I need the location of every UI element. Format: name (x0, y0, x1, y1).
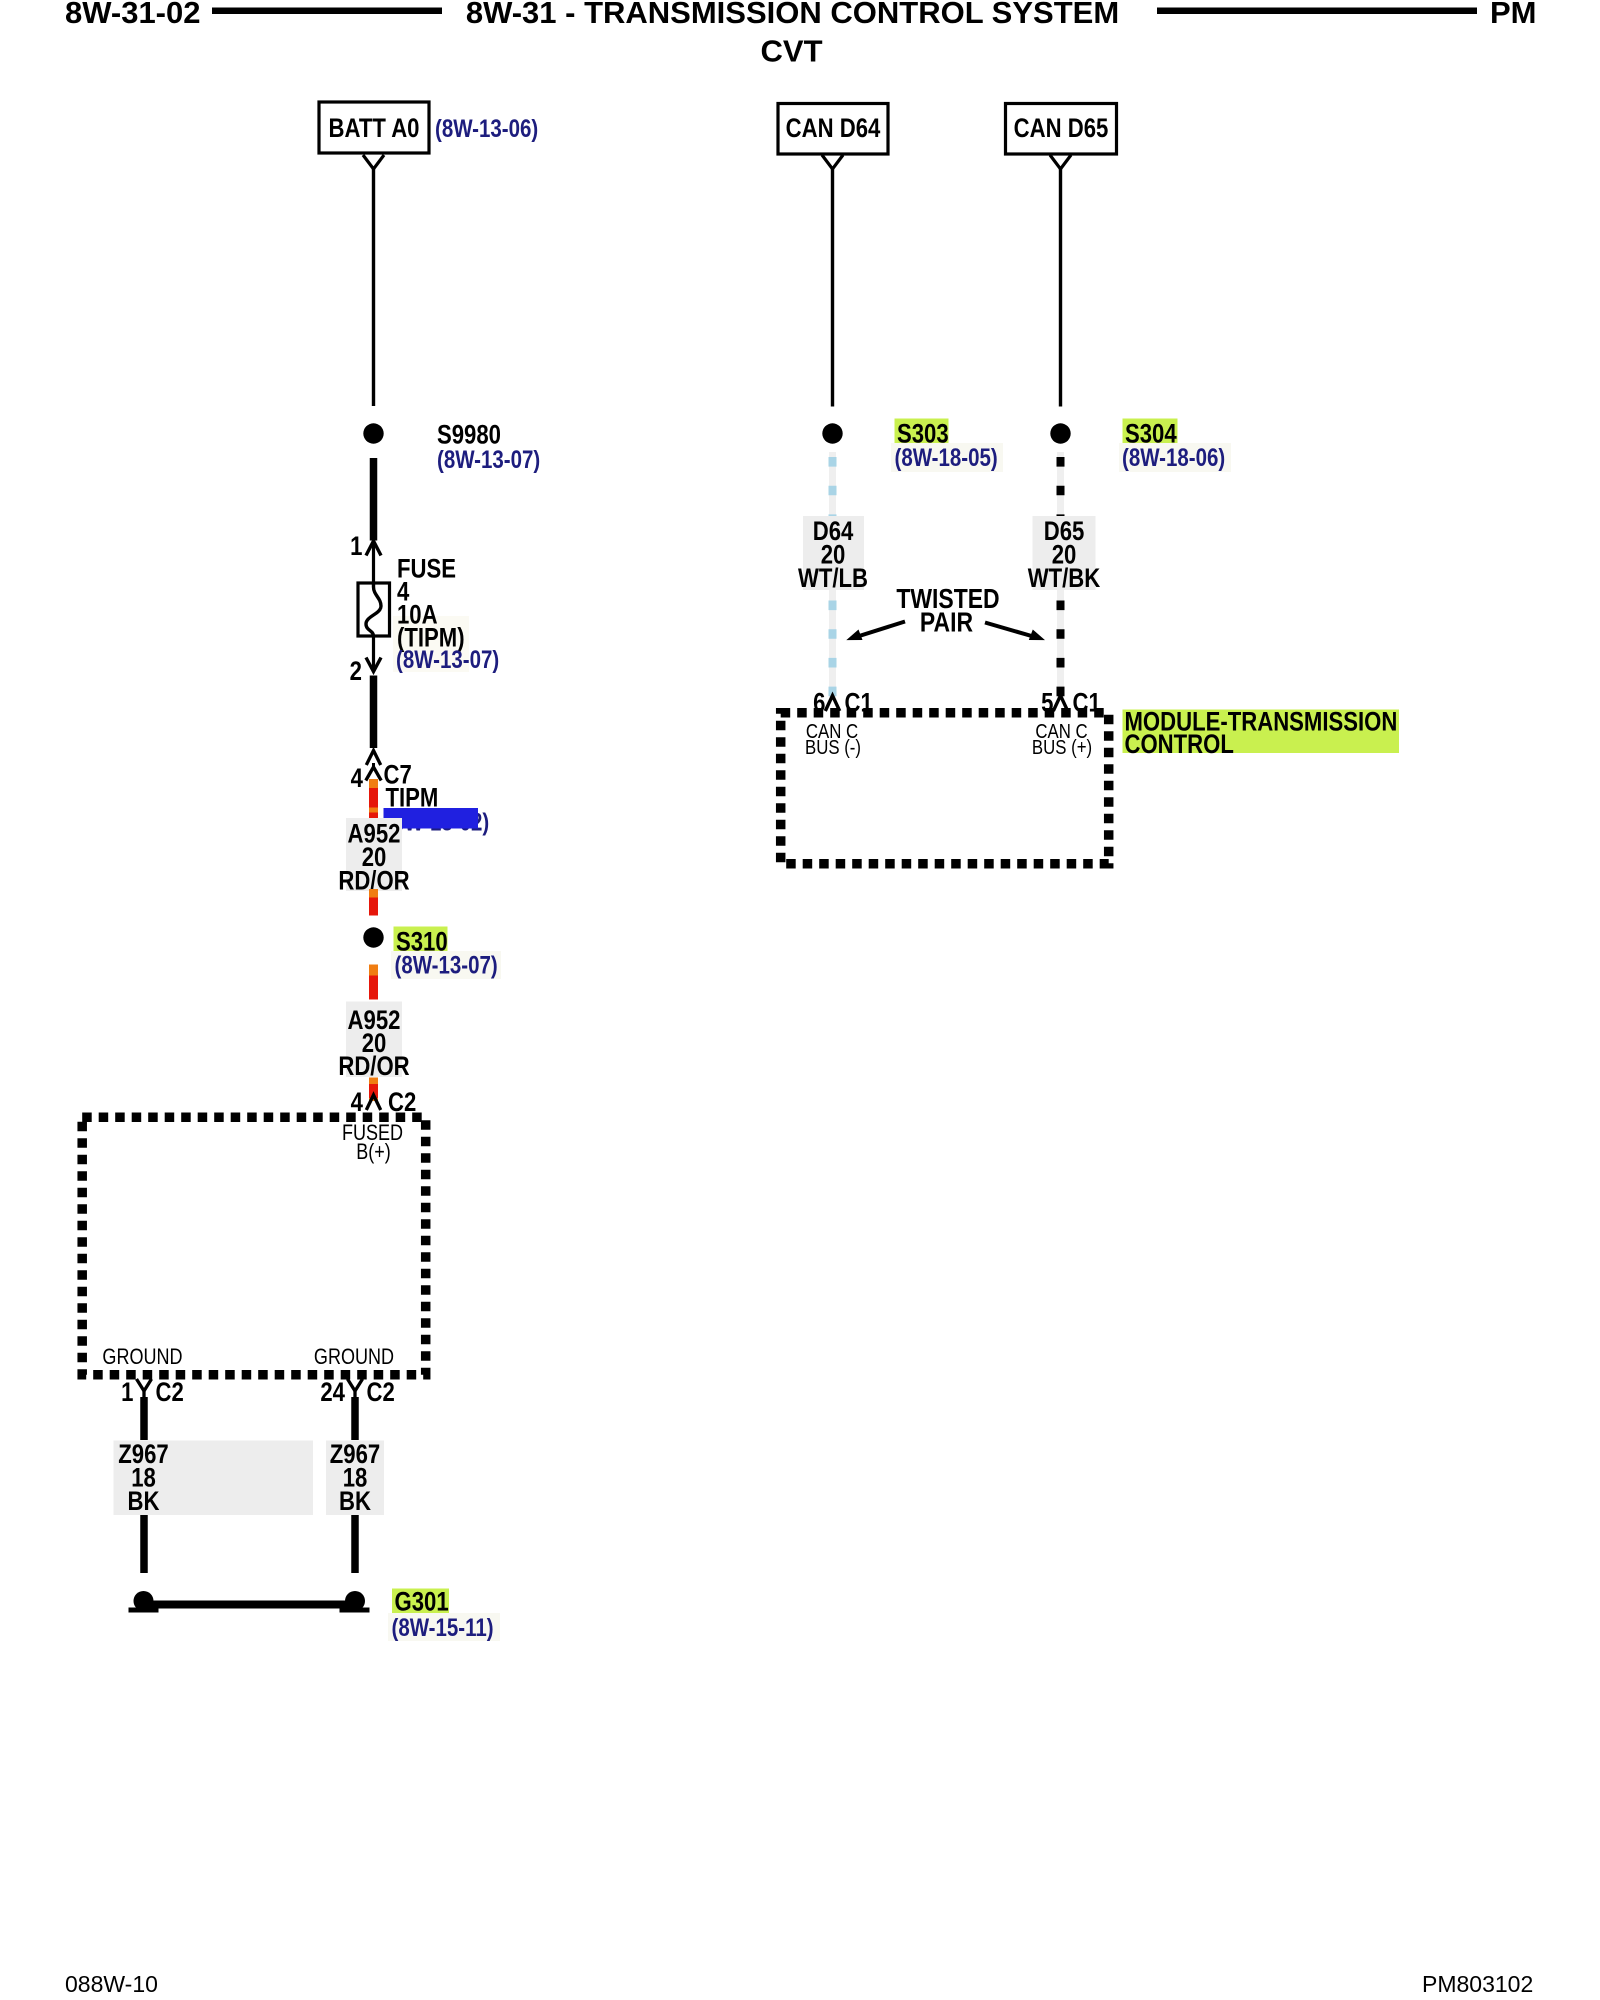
connector C2 label left (156, 1378, 184, 1408)
svg-text:CVT: CVT (761, 34, 823, 69)
svg-text:C2: C2 (156, 1378, 184, 1408)
wire label A952 20 RD/OR second (338, 1002, 409, 1082)
twisted pair arrow right (985, 623, 1045, 641)
svg-text:24: 24 (320, 1378, 345, 1408)
node BATT A0 (319, 102, 429, 153)
svg-text:C2: C2 (367, 1378, 395, 1408)
pin 2 arrow (366, 636, 381, 672)
svg-text:8W-31 - TRANSMISSION CONTROL S: 8W-31 - TRANSMISSION CONTROL SYSTEM (466, 0, 1119, 30)
pin 5 label (1041, 689, 1054, 719)
ground G301 label (392, 1588, 449, 1618)
svg-text:2: 2 (350, 657, 362, 687)
svg-text:WT/BK: WT/BK (1028, 564, 1101, 594)
connector C7 label (384, 761, 412, 791)
footer right code (1422, 1971, 1533, 1997)
pin 4 label at C2 (351, 1088, 364, 1118)
header left rule (212, 8, 442, 15)
pin 1 arrow (366, 541, 381, 583)
svg-text:1: 1 (121, 1378, 134, 1408)
svg-text:BUS (+): BUS (+) (1032, 735, 1092, 758)
wire S9980 to fuse pin 1 (370, 458, 378, 541)
header title (466, 0, 1119, 69)
wire Z967 right upper (351, 1397, 359, 1440)
wire label D64 20 WT/LB (798, 516, 868, 594)
svg-text:8W-31-02: 8W-31-02 (65, 0, 201, 30)
pin function CAN C BUS (+) (1032, 719, 1092, 758)
svg-text:BATT A0: BATT A0 (329, 114, 420, 144)
connector C7 arrows (366, 751, 381, 781)
reference (8W-13-06) (435, 114, 538, 142)
svg-text:(8W-13-07): (8W-13-07) (396, 645, 499, 673)
svg-text:PAIR: PAIR (920, 607, 973, 638)
svg-text:GROUND: GROUND (102, 1345, 182, 1369)
svg-text:CAN D64: CAN D64 (786, 114, 881, 144)
wire Z967 left lower (140, 1515, 148, 1573)
wire CAN D64 to S303 (831, 169, 834, 407)
svg-text:4: 4 (351, 764, 364, 794)
pin 6 label (813, 689, 825, 719)
fuse label FUSE 4 10A (TIPM) (393, 554, 469, 672)
pin function GROUND left (102, 1345, 182, 1369)
wire label Z967 18 BK left (114, 1440, 314, 1517)
module transmission control dashed box (781, 713, 1109, 864)
svg-text:BUS (-): BUS (-) (805, 735, 861, 758)
svg-text:(8W-13-07): (8W-13-07) (437, 445, 540, 473)
reference (8W-13-07) (391, 951, 501, 979)
wire Z967 right lower (351, 1515, 359, 1573)
node CAN D64 (778, 104, 888, 155)
svg-text:088W-10: 088W-10 (65, 1971, 158, 1997)
svg-text:B(+): B(+) (356, 1140, 391, 1164)
reference (8W-18-06) (1119, 443, 1231, 472)
reference (8W-13-07) (437, 445, 540, 473)
wire label A952 20 RD/OR (338, 818, 409, 896)
connector C2 caret (366, 1095, 380, 1110)
label TWISTED PAIR (896, 584, 999, 638)
pin 1 label C2 (121, 1378, 134, 1408)
reference (8W-15-11) (388, 1613, 500, 1641)
svg-text:PM803102: PM803102 (1422, 1971, 1533, 1997)
wire D64 dotted (WT/LB) (829, 452, 836, 697)
pin function CAN C BUS (-) (805, 719, 861, 758)
reference (8W-13-07) (396, 645, 499, 673)
ground G301 symbol (129, 1591, 370, 1613)
connector Y right (348, 1379, 363, 1400)
reference (8W-18-05) (891, 443, 1003, 472)
connector V below CAN D65 (1050, 155, 1071, 169)
splice S9980 (363, 421, 501, 451)
connector Y left (137, 1379, 152, 1400)
svg-text:(8W-13-07): (8W-13-07) (395, 951, 498, 979)
header right rule (1157, 8, 1477, 15)
connector V below CAN D64 (822, 155, 843, 169)
pin 5 caret (1053, 696, 1067, 712)
svg-text:WT/LB: WT/LB (798, 564, 868, 594)
pin function FUSED B(+) (342, 1121, 403, 1164)
pin 2 label (350, 657, 362, 687)
pin 1 label (350, 532, 363, 562)
splice S304 (1050, 419, 1177, 450)
svg-text:CONTROL: CONTROL (1125, 730, 1234, 760)
wire fuse to connector C7 (370, 676, 378, 749)
svg-text:PM: PM (1490, 0, 1537, 30)
fuse F4 10A TIPM (358, 583, 390, 636)
splice S303 (822, 419, 948, 450)
svg-text:(8W-15-11): (8W-15-11) (392, 1613, 494, 1641)
wire label D65 20 WT/BK (1028, 516, 1101, 594)
wire A952 segment 1 (RD/OR) (369, 779, 378, 818)
hidden reference (8W-13-02) under highlight (386, 808, 489, 836)
wire label Z967 18 BK right (326, 1440, 384, 1517)
module TIPM dashed box (lower left) (82, 1117, 426, 1375)
splice S310 (363, 927, 447, 958)
header right code PM (1490, 0, 1537, 30)
pin 4 label (351, 764, 364, 794)
module name MODULE-TRANSMISSION CONTROL (1123, 708, 1400, 760)
connector C2 label right (367, 1378, 395, 1408)
wire BATT A0 to S9980 (372, 169, 375, 406)
TIPM label (386, 784, 439, 814)
wire A952 segment 4 (RD/OR) (369, 1078, 378, 1102)
wire Z967 left upper (140, 1397, 148, 1440)
svg-text:RD/OR: RD/OR (338, 1052, 409, 1082)
wire A952 segment 3 (RD/OR) (369, 965, 378, 1000)
header left page number (65, 0, 201, 30)
svg-text:GROUND: GROUND (314, 1345, 394, 1369)
svg-text:(8W-18-06): (8W-18-06) (1122, 443, 1225, 471)
pin 24 label C2 (320, 1378, 345, 1408)
svg-text:1: 1 (350, 532, 363, 562)
svg-text:CAN D65: CAN D65 (1014, 114, 1109, 144)
connector C2 label (388, 1088, 416, 1118)
pin 6 caret (825, 696, 839, 712)
footer left code (65, 1971, 158, 1997)
node CAN D65 (1006, 104, 1117, 155)
svg-text:BK: BK (339, 1487, 371, 1517)
svg-text:(8W-13-06): (8W-13-06) (435, 114, 538, 142)
connector C1 label right (1073, 689, 1102, 719)
connector C1 label left (845, 689, 874, 719)
wire CAN D65 to S304 (1059, 169, 1062, 407)
connector V below BATT A0 (363, 155, 384, 169)
svg-text:(8W-18-05): (8W-18-05) (895, 443, 998, 471)
blue selection highlight (384, 808, 479, 829)
pin function GROUND right (314, 1345, 394, 1369)
svg-text:BK: BK (128, 1487, 160, 1517)
wire D65 dotted (WT/BK) (1057, 452, 1064, 697)
wire A952 segment 2 (RD/OR) (369, 889, 378, 916)
twisted pair arrow left (846, 622, 905, 641)
